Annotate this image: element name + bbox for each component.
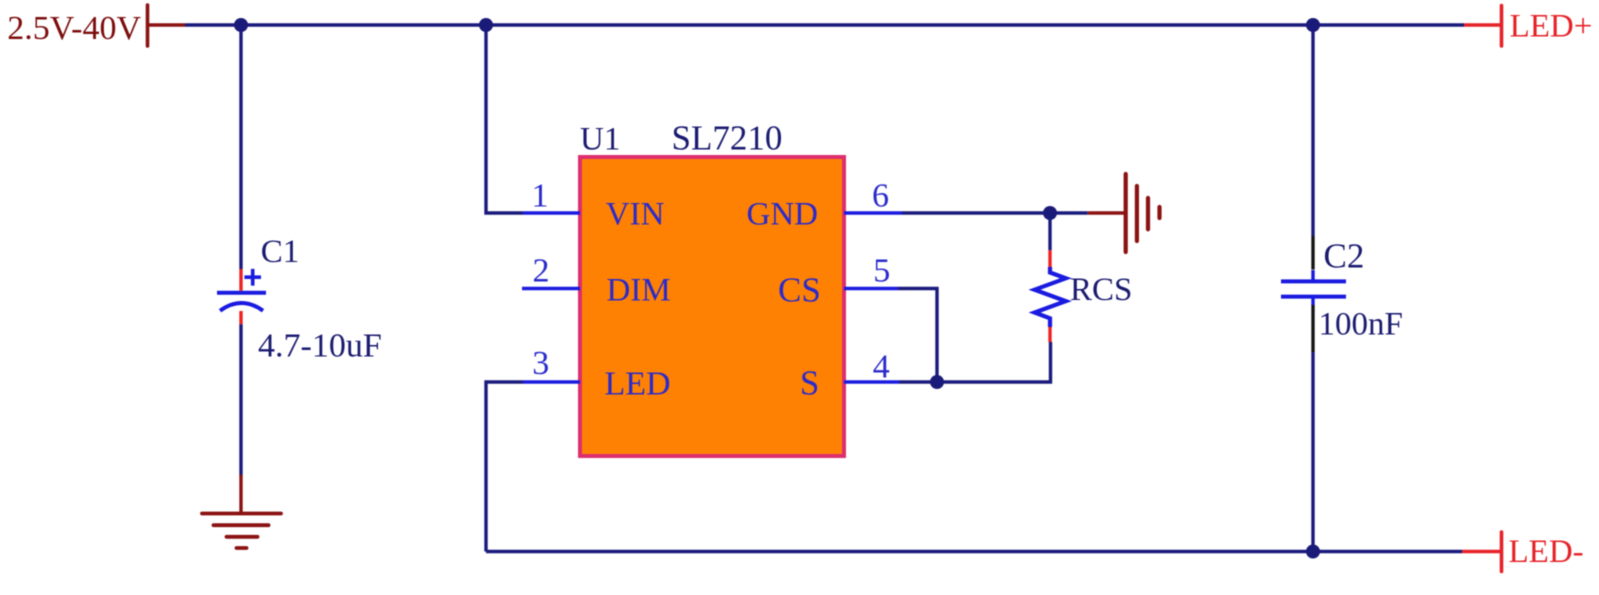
pin 5 CS — [778, 253, 898, 310]
svg-text:3: 3 — [532, 345, 549, 382]
wire input branch to pin 1 — [486, 25, 523, 213]
port 2.5V-40V — [7, 5, 185, 47]
svg-text:U1: U1 — [580, 122, 620, 158]
capacitor C1 — [217, 234, 382, 364]
wire RCS top — [1048, 213, 1051, 250]
wire pin 3 to bottom rail — [486, 382, 523, 552]
svg-text:VIN: VIN — [606, 197, 665, 233]
svg-text:CS: CS — [778, 270, 821, 309]
wire C1 upper — [239, 25, 242, 269]
svg-text:S: S — [800, 364, 819, 403]
pin 1 VIN — [523, 178, 665, 233]
wire pin 6 to ground — [902, 211, 1088, 214]
pin 4 S — [800, 349, 899, 403]
svg-text:1: 1 — [532, 178, 549, 215]
wire bottom rail — [486, 550, 1462, 553]
capacitor C2 — [1281, 236, 1403, 352]
node B: junction dot at input branch — [479, 18, 493, 32]
svg-text:4.7-10uF: 4.7-10uF — [258, 327, 382, 364]
svg-text:RCS: RCS — [1070, 272, 1132, 308]
svg-text:LED: LED — [605, 366, 671, 403]
wire C2 upper — [1311, 25, 1314, 236]
node E: junction dot top-right — [1306, 18, 1320, 32]
svg-text:LED-: LED- — [1509, 534, 1584, 570]
svg-text:SL7210: SL7210 — [672, 119, 783, 158]
ground GND2 — [1088, 174, 1160, 252]
node F: junction dot bottom-right — [1306, 545, 1320, 559]
wire C1 lower — [239, 324, 242, 475]
node A: junction dot top-left — [234, 18, 248, 32]
ground GND1 — [202, 475, 281, 548]
node D: junction dot pin4 — [930, 375, 944, 389]
wire C2 lower — [1311, 352, 1314, 552]
svg-text:2: 2 — [533, 253, 550, 290]
svg-text:C2: C2 — [1324, 236, 1365, 275]
svg-text:4: 4 — [873, 349, 890, 386]
port LED+ — [1464, 6, 1592, 47]
svg-text:LED+: LED+ — [1510, 9, 1593, 45]
resistor RCS — [1035, 250, 1133, 342]
pin 2 DIM — [522, 253, 671, 309]
svg-text:GND: GND — [747, 197, 819, 233]
svg-text:C1: C1 — [261, 234, 300, 270]
svg-text:2.5V-40V: 2.5V-40V — [7, 10, 141, 47]
svg-text:DIM: DIM — [607, 273, 671, 309]
node C: junction dot at RCS top — [1043, 206, 1057, 220]
svg-text:100nF: 100nF — [1319, 307, 1403, 343]
pin 3 LED — [523, 345, 671, 403]
svg-text:6: 6 — [872, 178, 889, 215]
IC U1 SL7210 — [580, 119, 844, 457]
wire pin 4 to RCS bottom — [899, 342, 1051, 382]
port LED- — [1462, 532, 1584, 572]
wire pin 5 loop — [898, 289, 937, 383]
pin 6 GND — [747, 178, 903, 233]
svg-text:5: 5 — [873, 253, 890, 290]
wire top rail — [185, 23, 1464, 26]
